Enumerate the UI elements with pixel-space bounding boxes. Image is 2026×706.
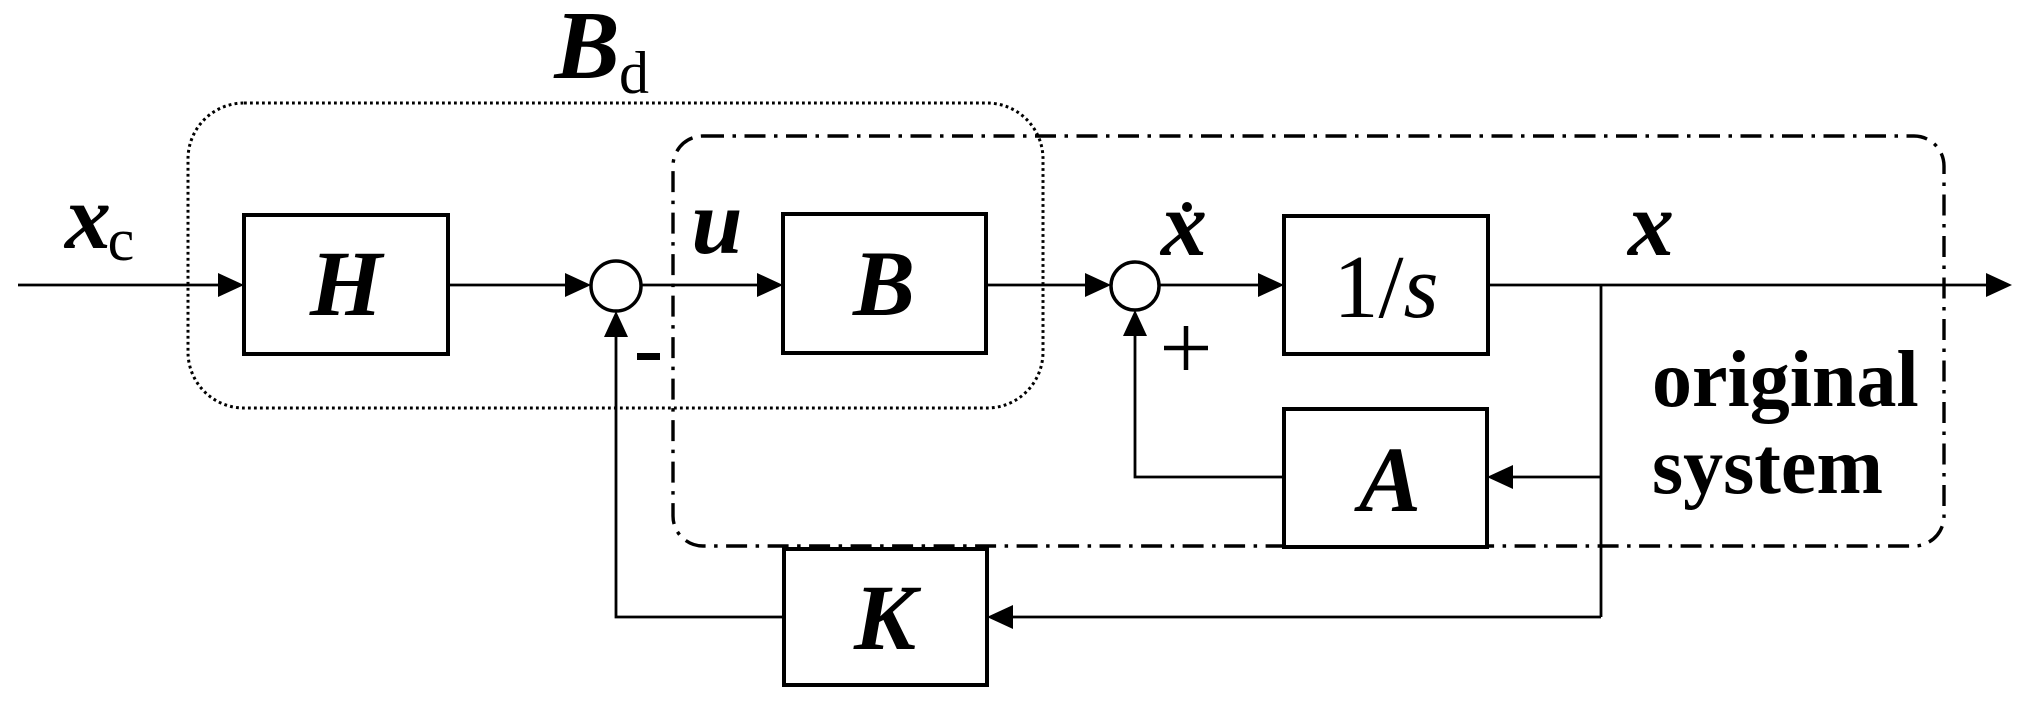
svg-text:H: H [309,233,385,336]
svg-text:u: u [691,171,742,273]
wire H to J1 [448,284,569,287]
block H [244,215,448,354]
wire J1 to B [640,284,761,287]
minus sign [637,353,660,360]
wire integrator output x [1488,284,1990,287]
wire node to K [1009,616,1601,619]
dash-dot enclosure original system [673,136,1944,546]
svg-text:d: d [619,40,649,106]
block A [1284,409,1487,547]
wire J2 to integrator [1159,284,1262,287]
svg-text:A: A [1354,429,1421,532]
dotted enclosure Bd [188,103,1043,408]
svg-text:x: x [1626,173,1674,275]
svg-text:B: B [553,0,619,100]
svg-text:x: x [1159,173,1207,275]
summing junction J2 [1111,262,1159,310]
svg-text:1/s: 1/s [1333,238,1438,337]
svg-text:c: c [108,207,135,273]
svg-text:x: x [63,166,111,268]
wire K to J1 [616,333,784,617]
summing junction J1 [591,261,641,311]
wire A to J2 [1135,332,1284,477]
wire B to J2 [986,284,1089,287]
node branch vertical [1600,285,1603,617]
block B [783,214,986,353]
wire node to A [1509,476,1601,479]
block 1/s integrator [1284,216,1488,354]
svg-text:system: system [1652,423,1883,511]
svg-text:original: original [1652,336,1919,424]
wire input xc [18,284,222,287]
svg-text:B: B [852,233,915,336]
svg-text:K: K [853,567,922,670]
plus sign [1164,346,1208,351]
block K [784,549,987,685]
